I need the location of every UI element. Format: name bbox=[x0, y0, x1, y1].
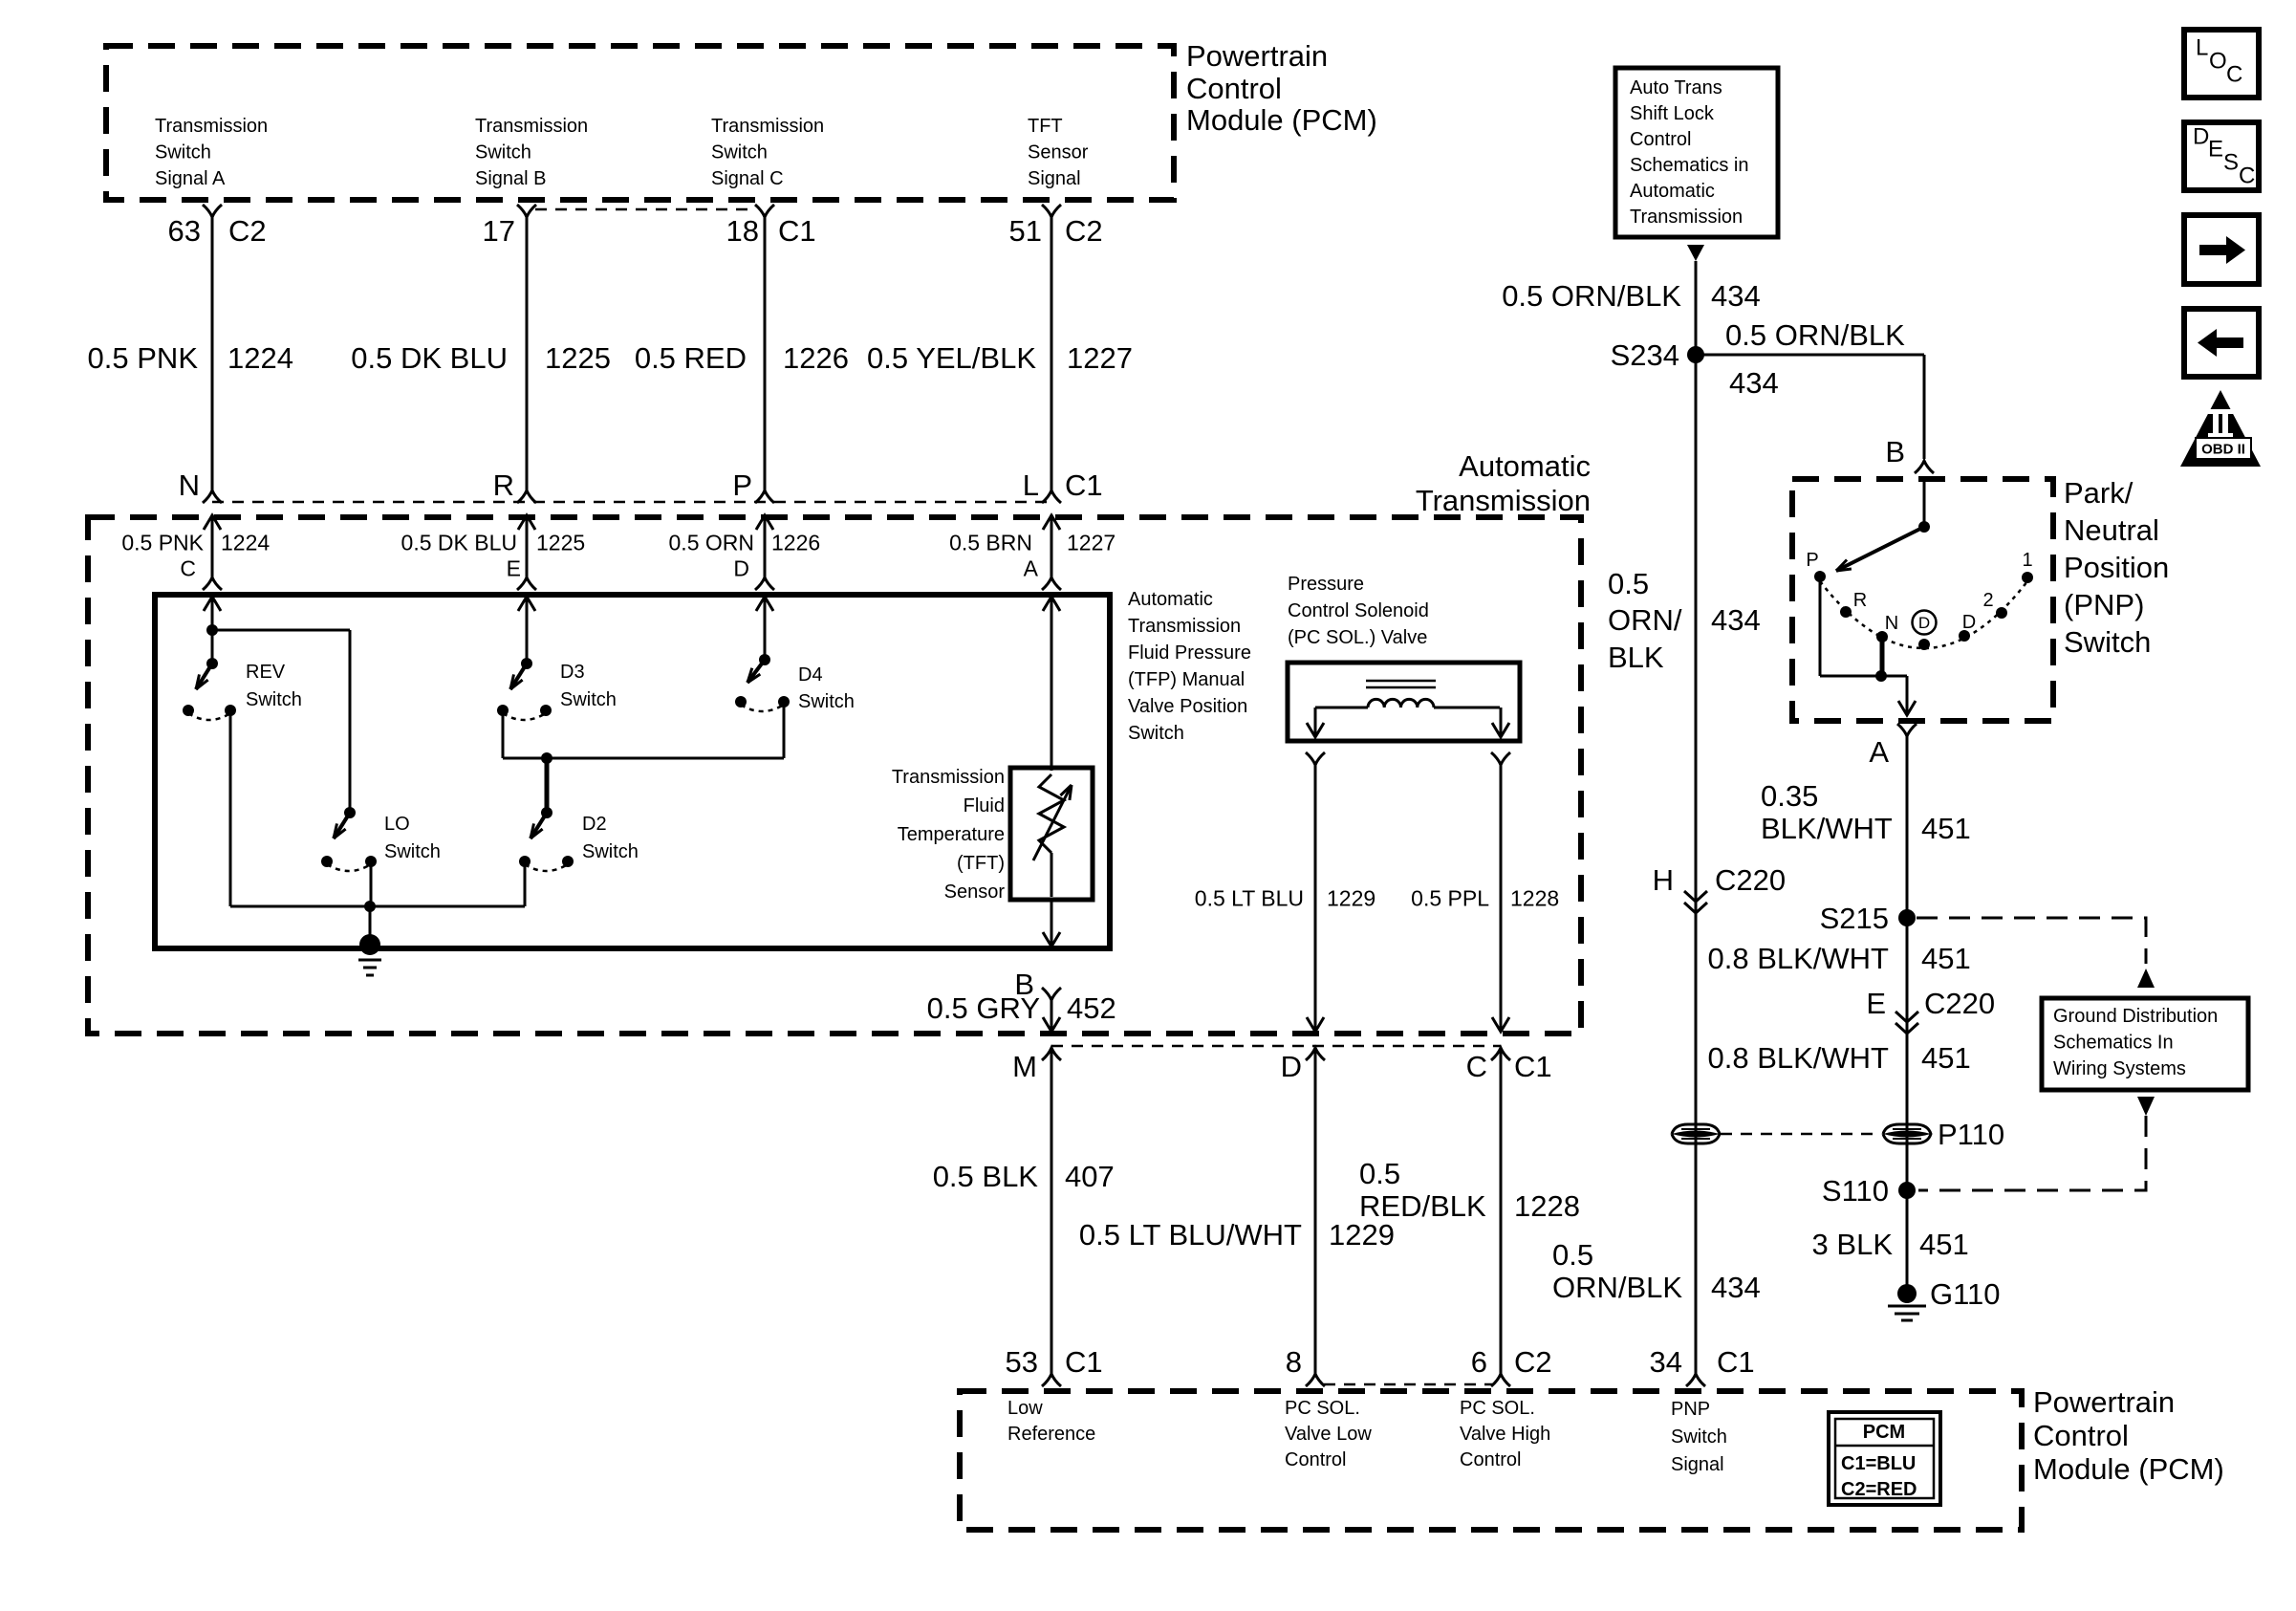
svg-text:B: B bbox=[1885, 435, 1905, 468]
svg-text:18: 18 bbox=[726, 214, 759, 248]
svg-text:Signal: Signal bbox=[1671, 1454, 1724, 1475]
svg-text:Transmission: Transmission bbox=[1416, 484, 1591, 517]
svg-text:Switch: Switch bbox=[155, 142, 211, 163]
svg-text:1229: 1229 bbox=[1327, 885, 1375, 910]
svg-text:Switch: Switch bbox=[2064, 625, 2151, 659]
svg-text:P: P bbox=[732, 468, 752, 502]
svg-text:C2=RED: C2=RED bbox=[1841, 1479, 1917, 1500]
svg-text:D2: D2 bbox=[582, 814, 607, 835]
svg-text:Auto Trans: Auto Trans bbox=[1630, 77, 1722, 98]
svg-text:Powertrain: Powertrain bbox=[2033, 1385, 2175, 1419]
svg-text:C1: C1 bbox=[1717, 1345, 1755, 1379]
svg-text:6: 6 bbox=[1471, 1345, 1487, 1379]
svg-text:0.5 GRY: 0.5 GRY bbox=[927, 991, 1040, 1025]
svg-text:Module (PCM): Module (PCM) bbox=[2033, 1452, 2224, 1486]
svg-text:0.5 BRN: 0.5 BRN bbox=[949, 530, 1032, 555]
svg-text:1225: 1225 bbox=[536, 530, 585, 555]
svg-text:Switch: Switch bbox=[798, 691, 855, 712]
svg-text:BLK/WHT: BLK/WHT bbox=[1761, 812, 1893, 845]
svg-text:L: L bbox=[2196, 35, 2208, 61]
svg-text:Valve Low: Valve Low bbox=[1285, 1424, 1372, 1445]
svg-text:Ground Distribution: Ground Distribution bbox=[2053, 1006, 2218, 1027]
svg-text:E: E bbox=[2208, 137, 2223, 163]
svg-text:Automatic: Automatic bbox=[1630, 181, 1715, 202]
svg-text:Control: Control bbox=[1285, 1449, 1346, 1470]
svg-text:Schematics in: Schematics in bbox=[1630, 155, 1749, 176]
svg-text:C: C bbox=[2226, 62, 2242, 88]
svg-text:0.8 BLK/WHT: 0.8 BLK/WHT bbox=[1708, 1041, 1890, 1075]
svg-text:C2: C2 bbox=[228, 214, 267, 248]
svg-text:Position: Position bbox=[2064, 551, 2169, 584]
svg-text:Park/: Park/ bbox=[2064, 476, 2134, 510]
svg-text:51: 51 bbox=[1009, 214, 1042, 248]
svg-text:OBD II: OBD II bbox=[2201, 441, 2245, 457]
svg-text:C: C bbox=[2239, 163, 2255, 189]
svg-text:0.5 ORN: 0.5 ORN bbox=[669, 530, 754, 555]
svg-text:Switch: Switch bbox=[246, 689, 302, 710]
svg-text:17: 17 bbox=[483, 214, 515, 248]
svg-text:A: A bbox=[1024, 555, 1039, 580]
svg-text:Fluid Pressure: Fluid Pressure bbox=[1128, 642, 1251, 664]
svg-text:Transmission: Transmission bbox=[475, 116, 588, 137]
svg-text:Transmission: Transmission bbox=[1128, 616, 1241, 637]
svg-text:D: D bbox=[1962, 612, 1976, 633]
svg-text:0.5 ORN/BLK: 0.5 ORN/BLK bbox=[1725, 318, 1905, 352]
svg-text:Shift Lock: Shift Lock bbox=[1630, 103, 1715, 124]
svg-text:Sensor: Sensor bbox=[1028, 142, 1089, 163]
svg-text:Temperature: Temperature bbox=[898, 824, 1005, 845]
svg-text:3 BLK: 3 BLK bbox=[1812, 1228, 1894, 1261]
svg-text:PC SOL.: PC SOL. bbox=[1285, 1398, 1360, 1419]
svg-text:Schematics In: Schematics In bbox=[2053, 1033, 2174, 1054]
svg-text:PNP: PNP bbox=[1671, 1399, 1710, 1420]
svg-text:452: 452 bbox=[1067, 991, 1116, 1025]
svg-text:C1: C1 bbox=[778, 214, 816, 248]
svg-text:Pressure: Pressure bbox=[1288, 574, 1364, 595]
svg-text:0.5 YEL/BLK: 0.5 YEL/BLK bbox=[867, 341, 1036, 375]
svg-text:0.8 BLK/WHT: 0.8 BLK/WHT bbox=[1708, 942, 1890, 975]
svg-text:1224: 1224 bbox=[227, 341, 293, 375]
svg-text:Automatic: Automatic bbox=[1459, 449, 1591, 483]
svg-text:ORN/BLK: ORN/BLK bbox=[1552, 1271, 1682, 1304]
svg-text:R: R bbox=[1853, 590, 1867, 611]
svg-text:0.5 PNK: 0.5 PNK bbox=[121, 530, 204, 555]
svg-text:C: C bbox=[180, 555, 196, 580]
svg-text:D: D bbox=[1281, 1050, 1302, 1083]
svg-text:N: N bbox=[1885, 613, 1898, 634]
svg-text:Switch: Switch bbox=[560, 689, 617, 710]
svg-text:1226: 1226 bbox=[783, 341, 849, 375]
svg-text:Powertrain: Powertrain bbox=[1186, 39, 1328, 73]
svg-text:34: 34 bbox=[1650, 1345, 1682, 1379]
svg-text:(PC SOL.) Valve: (PC SOL.) Valve bbox=[1288, 627, 1427, 648]
svg-text:C2: C2 bbox=[1514, 1345, 1552, 1379]
svg-text:D: D bbox=[2193, 124, 2209, 150]
svg-text:0.35: 0.35 bbox=[1761, 779, 1818, 813]
svg-text:Switch: Switch bbox=[1671, 1426, 1727, 1448]
svg-text:0.5: 0.5 bbox=[1608, 567, 1649, 600]
svg-text:Valve High: Valve High bbox=[1460, 1424, 1550, 1445]
svg-text:434: 434 bbox=[1729, 366, 1779, 400]
svg-text:H: H bbox=[1653, 863, 1674, 897]
svg-text:G110: G110 bbox=[1930, 1277, 2001, 1311]
svg-text:0.5 BLK: 0.5 BLK bbox=[933, 1160, 1039, 1193]
svg-text:Low: Low bbox=[1007, 1398, 1043, 1419]
svg-text:Automatic: Automatic bbox=[1128, 589, 1213, 610]
svg-text:E: E bbox=[1866, 987, 1886, 1020]
svg-text:LO: LO bbox=[384, 814, 410, 835]
svg-text:Signal A: Signal A bbox=[155, 168, 226, 189]
svg-text:Wiring Systems: Wiring Systems bbox=[2053, 1058, 2186, 1079]
svg-text:8: 8 bbox=[1286, 1345, 1302, 1379]
svg-text:Switch: Switch bbox=[582, 841, 639, 862]
svg-text:C1: C1 bbox=[1514, 1050, 1552, 1083]
svg-text:Switch: Switch bbox=[475, 142, 531, 163]
svg-text:Control: Control bbox=[1186, 72, 1282, 105]
svg-text:Signal C: Signal C bbox=[711, 168, 784, 189]
svg-text:Neutral: Neutral bbox=[2064, 513, 2159, 547]
svg-text:C: C bbox=[1466, 1050, 1487, 1083]
svg-text:M: M bbox=[1012, 1050, 1037, 1083]
svg-text:R: R bbox=[493, 468, 514, 502]
svg-text:Control: Control bbox=[1460, 1449, 1521, 1470]
svg-text:Control Solenoid: Control Solenoid bbox=[1288, 600, 1429, 621]
svg-text:434: 434 bbox=[1711, 603, 1761, 637]
svg-text:53: 53 bbox=[1006, 1345, 1038, 1379]
svg-text:C1: C1 bbox=[1065, 468, 1103, 502]
svg-text:0.5: 0.5 bbox=[1359, 1157, 1400, 1190]
svg-text:D: D bbox=[1918, 614, 1930, 632]
svg-text:Control: Control bbox=[1630, 129, 1691, 150]
svg-text:1228: 1228 bbox=[1510, 885, 1559, 910]
svg-text:451: 451 bbox=[1921, 942, 1971, 975]
svg-text:451: 451 bbox=[1919, 1228, 1969, 1261]
svg-text:S215: S215 bbox=[1820, 902, 1889, 935]
svg-text:1224: 1224 bbox=[221, 530, 270, 555]
svg-text:0.5 ORN/BLK: 0.5 ORN/BLK bbox=[1502, 279, 1681, 313]
svg-text:0.5 LT BLU/WHT: 0.5 LT BLU/WHT bbox=[1079, 1218, 1302, 1252]
svg-text:Transmission: Transmission bbox=[711, 116, 824, 137]
svg-text:1: 1 bbox=[2022, 550, 2032, 571]
svg-text:P: P bbox=[1806, 550, 1818, 571]
svg-text:S234: S234 bbox=[1611, 338, 1679, 372]
svg-text:C1=BLU: C1=BLU bbox=[1841, 1453, 1916, 1474]
svg-text:C220: C220 bbox=[1924, 987, 1995, 1020]
svg-text:D: D bbox=[733, 555, 749, 580]
svg-text:63: 63 bbox=[168, 214, 201, 248]
svg-text:A: A bbox=[1869, 735, 1889, 769]
svg-text:2: 2 bbox=[1982, 590, 1993, 611]
svg-text:451: 451 bbox=[1921, 1041, 1971, 1075]
svg-text:Sensor: Sensor bbox=[944, 882, 1006, 903]
svg-text:P110: P110 bbox=[1938, 1118, 2004, 1151]
svg-text:TFT: TFT bbox=[1028, 116, 1063, 137]
svg-text:Switch: Switch bbox=[711, 142, 768, 163]
svg-text:PC SOL.: PC SOL. bbox=[1460, 1398, 1535, 1419]
svg-text:O: O bbox=[2209, 49, 2227, 75]
svg-text:C1: C1 bbox=[1065, 1345, 1103, 1379]
svg-text:E: E bbox=[507, 555, 521, 580]
svg-text:D3: D3 bbox=[560, 662, 585, 683]
svg-text:S: S bbox=[2223, 150, 2239, 176]
svg-text:Transmission: Transmission bbox=[155, 116, 268, 137]
svg-text:PCM: PCM bbox=[1863, 1422, 1905, 1443]
svg-text:S110: S110 bbox=[1822, 1174, 1889, 1208]
svg-text:407: 407 bbox=[1065, 1160, 1115, 1193]
svg-text:Switch: Switch bbox=[1128, 723, 1184, 744]
svg-text:D4: D4 bbox=[798, 664, 823, 686]
svg-text:RED/BLK: RED/BLK bbox=[1359, 1189, 1486, 1223]
svg-text:(TFP) Manual: (TFP) Manual bbox=[1128, 669, 1245, 690]
svg-text:0.5 PNK: 0.5 PNK bbox=[88, 341, 199, 375]
svg-text:0.5 DK BLU: 0.5 DK BLU bbox=[401, 530, 517, 555]
svg-text:434: 434 bbox=[1711, 1271, 1761, 1304]
svg-text:C220: C220 bbox=[1715, 863, 1786, 897]
svg-text:451: 451 bbox=[1921, 812, 1971, 845]
svg-text:1227: 1227 bbox=[1067, 341, 1133, 375]
svg-text:Valve Position: Valve Position bbox=[1128, 696, 1247, 717]
svg-text:Control: Control bbox=[2033, 1419, 2129, 1452]
svg-text:BLK: BLK bbox=[1608, 641, 1664, 674]
svg-text:Signal: Signal bbox=[1028, 168, 1081, 189]
svg-text:Fluid: Fluid bbox=[964, 795, 1005, 816]
svg-text:Transmission: Transmission bbox=[892, 767, 1005, 788]
svg-text:(TFT): (TFT) bbox=[957, 853, 1005, 874]
svg-text:0.5 LT BLU: 0.5 LT BLU bbox=[1195, 885, 1304, 910]
svg-text:1228: 1228 bbox=[1514, 1189, 1580, 1223]
svg-text:1226: 1226 bbox=[771, 530, 820, 555]
svg-text:Signal B: Signal B bbox=[475, 168, 547, 189]
svg-text:0.5 PPL: 0.5 PPL bbox=[1411, 885, 1489, 910]
svg-text:0.5 DK BLU: 0.5 DK BLU bbox=[351, 341, 508, 375]
svg-text:Transmission: Transmission bbox=[1630, 207, 1743, 228]
svg-text:N: N bbox=[179, 468, 200, 502]
svg-text:L: L bbox=[1023, 468, 1039, 502]
svg-text:C2: C2 bbox=[1065, 214, 1103, 248]
svg-text:Module (PCM): Module (PCM) bbox=[1186, 103, 1377, 137]
svg-text:1227: 1227 bbox=[1067, 530, 1116, 555]
svg-text:Reference: Reference bbox=[1007, 1424, 1095, 1445]
svg-text:0.5 RED: 0.5 RED bbox=[635, 341, 747, 375]
svg-text:ORN/: ORN/ bbox=[1608, 603, 1682, 637]
svg-text:1229: 1229 bbox=[1329, 1218, 1395, 1252]
svg-text:434: 434 bbox=[1711, 279, 1761, 313]
svg-text:1225: 1225 bbox=[545, 341, 611, 375]
svg-text:REV: REV bbox=[246, 662, 286, 683]
svg-text:0.5: 0.5 bbox=[1552, 1238, 1593, 1272]
svg-text:(PNP): (PNP) bbox=[2064, 588, 2144, 621]
svg-text:Switch: Switch bbox=[384, 841, 441, 862]
